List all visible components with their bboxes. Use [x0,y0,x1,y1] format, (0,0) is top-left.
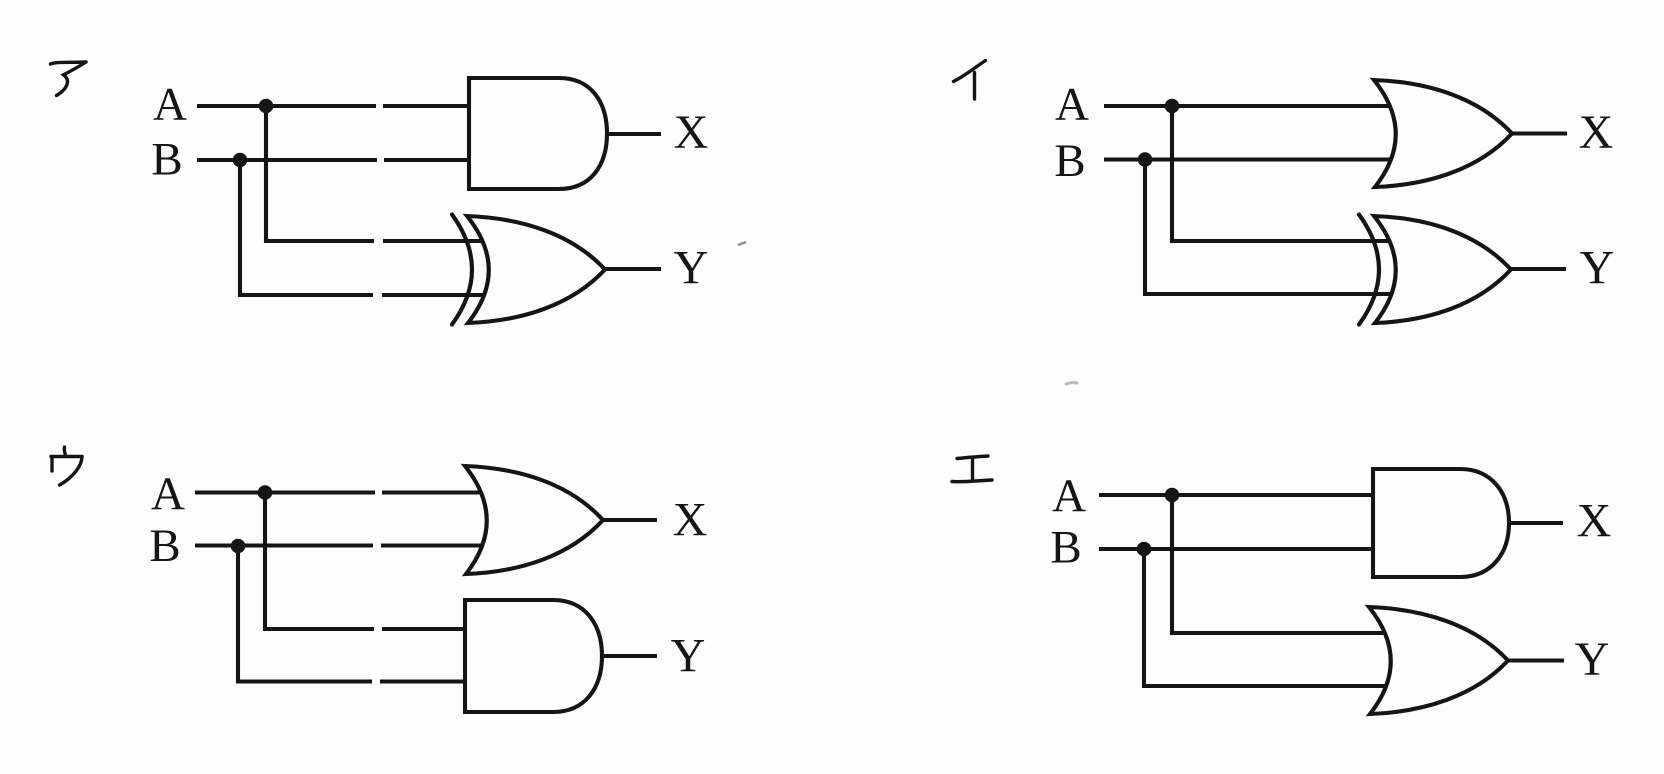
svg-text:A: A [153,79,187,131]
svg-text:B: B [151,134,182,186]
svg-text:A: A [1052,470,1086,522]
junction dot on B wire (イ) [1138,152,1153,167]
option label エ [952,456,992,482]
OR gate (エ, drives Y) [1369,607,1508,714]
svg-text:B: B [1054,135,1085,187]
option label ウ [51,447,82,485]
junction dot on A wire (ア) [259,99,274,114]
wire: input B to OR gate (ウ) [195,543,500,547]
junction dot on B wire (ウ) [231,539,246,554]
AND gate (ア, drives X) [469,78,607,189]
wire: OR output to X (ウ) [603,518,657,522]
svg-text:B: B [149,520,180,572]
option label イ [954,61,986,100]
wire: input B to AND gate (エ) [1099,547,1400,551]
junction dot on B wire (ア) [233,153,248,168]
junction dot on B wire (エ) [1137,542,1152,557]
wire: OR output to X (イ) [1512,131,1567,135]
wire: input A to AND gate (ア) [197,104,500,108]
wire: XOR output to Y (ア) [605,267,661,271]
wire: input B to AND gate (ア) [197,158,500,162]
wire: AND output to Y (ウ) [602,654,657,658]
option label ア [51,62,87,96]
wire: A branch down to AND top input (ウ) [265,493,495,630]
AND gate (エ, drives X) [1373,469,1509,577]
OR gate (ウ, drives X) [465,466,603,574]
wire: B branch down to XOR bottom input (イ) [1145,160,1403,295]
svg-text:X: X [1577,495,1612,548]
svg-text:A: A [1055,79,1089,131]
svg-text:X: X [674,106,709,159]
scan smudge above エ quadrant [1066,383,1077,384]
AND gate (ウ, drives Y) [465,600,602,712]
scan speck near ア Y output [738,242,746,245]
wire: input A to OR gate (イ) [1104,104,1405,108]
wire: OR output to Y (エ) [1508,658,1564,662]
junction dot on A wire (ウ) [258,485,273,500]
svg-text:Y: Y [674,242,709,295]
wire: B branch down to AND bottom input (ウ) [238,546,495,682]
XOR gate (ア, drives Y) [452,215,605,325]
svg-text:Y: Y [1580,242,1615,295]
svg-text:Y: Y [671,630,706,683]
svg-text:Y: Y [1575,633,1610,686]
wire: input A to AND gate (エ) [1099,493,1400,497]
svg-text:X: X [1579,106,1614,159]
wire: A branch down to XOR top input (イ) [1172,106,1405,241]
wire: AND output to X (ア) [607,132,661,136]
wire: B branch down to OR bottom input (エ) [1144,549,1400,686]
wire: B branch down to XOR bottom input (ア) [240,160,495,295]
junction dot on A wire (エ) [1165,488,1180,503]
svg-text:A: A [151,468,185,520]
junction dot on A wire (イ) [1165,99,1180,114]
wire: input A to OR gate (ウ) [195,490,500,494]
XOR gate (イ, drives Y) [1359,215,1511,325]
wire: A branch down to XOR top input (ア) [266,106,497,241]
svg-text:B: B [1050,522,1081,574]
svg-text:X: X [673,494,708,547]
wire: AND output to X (エ) [1509,521,1563,525]
wire: A branch down to OR top input (エ) [1172,495,1400,633]
OR gate (イ, drives X) [1374,80,1512,187]
wire: XOR output to Y (イ) [1511,267,1566,271]
wire: input B to OR gate (イ) [1104,157,1405,161]
